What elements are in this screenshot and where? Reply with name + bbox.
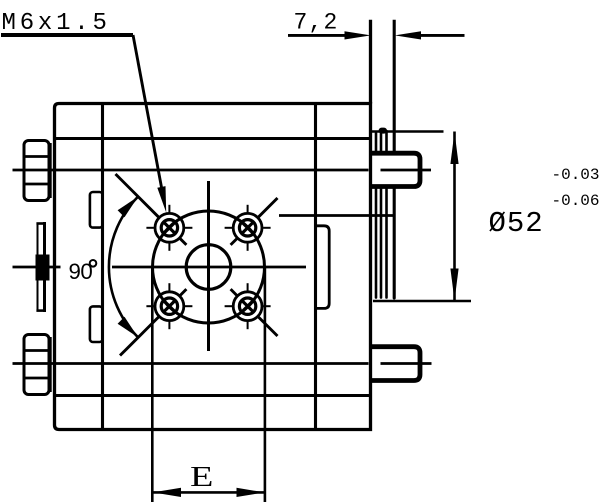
svg-text:Ø52: Ø52 xyxy=(489,207,544,240)
svg-text:-0.06: -0.06 xyxy=(552,192,600,210)
svg-text:7,2: 7,2 xyxy=(294,10,339,36)
svg-text:-0.03: -0.03 xyxy=(552,166,600,184)
svg-text:M6x1.5: M6x1.5 xyxy=(2,10,111,37)
svg-text:E: E xyxy=(190,461,213,493)
